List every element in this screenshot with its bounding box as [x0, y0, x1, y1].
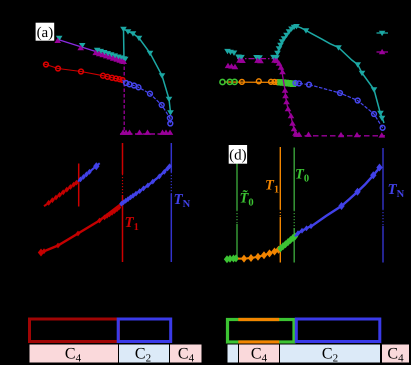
right bar: pink C4 cell — [239, 344, 280, 363]
panel (b): blue circle series — [295, 83, 383, 128]
panel (d): blue segment — [295, 166, 381, 236]
svg-text:(a): (a) — [37, 25, 54, 41]
panel (a): teal curve jump and decay — [124, 29, 171, 113]
panel (a) label box — [36, 23, 55, 41]
panel (b): purple descent curve — [277, 59, 298, 136]
right bar: orange overlay bottom edge — [238, 340, 279, 343]
panel (c): main line red segment — [41, 205, 121, 253]
panel (a): purple dashed vertical drop — [123, 61, 125, 131]
right bar: green outlined rect — [228, 320, 295, 343]
panel (c): red T1 vertical line — [122, 143, 124, 174]
panel (c): main line blue segment — [121, 166, 171, 205]
left bar: pink C4 right cell — [170, 344, 203, 363]
right bar: blue outlined rect — [296, 319, 380, 342]
panel (c): upper line red segment — [44, 182, 78, 207]
panel (a): shallow purple line with paired triangle markers — [58, 40, 124, 61]
panel (b): teal spike curve — [277, 26, 385, 123]
legend: teal entry — [377, 32, 389, 34]
panel (b): paired markers on line — [235, 55, 242, 60]
panel (b): orange circle series with green circles — [224, 81, 280, 83]
panel (b): purple dash-dot horizontal line — [237, 58, 277, 60]
panel (d) label box — [229, 145, 247, 164]
panel (d): blue vertical line — [382, 148, 384, 209]
panel (b): teal left cluster — [224, 49, 231, 54]
panel (d): green vertical line 2 — [293, 148, 295, 211]
legend: purple entry — [377, 51, 389, 53]
panel (a): red circle series — [43, 64, 123, 80]
panel (a): blue circle series — [123, 81, 171, 124]
panel (b): purple dashed baseline — [296, 135, 385, 137]
left bar: pink C4 cell — [29, 344, 119, 363]
right bar: light blue C2 cell — [280, 344, 381, 363]
panel (a): purple dashed baseline with up-triangles — [120, 133, 172, 135]
left bar: dark red outlined rect — [30, 319, 119, 342]
panel (b): purple left cluster — [225, 63, 232, 68]
panel (b): green square cluster — [277, 79, 283, 85]
svg-text:(d): (d) — [229, 147, 247, 163]
left bar: light blue C2 cell — [119, 344, 170, 363]
right bar: orange overlay top edge — [238, 318, 279, 321]
panel (d): orange segment — [238, 249, 280, 258]
panel (c): short red vertical line — [78, 164, 80, 207]
right bar: pink C4 right cell — [382, 344, 410, 363]
panel (d): green start segment — [226, 258, 239, 261]
left bar: blue outlined rect — [118, 319, 171, 342]
panel (d): green vertical line 1 — [236, 163, 238, 210]
right bar: small light blue cell — [227, 344, 239, 363]
panel (d): orange vertical line — [279, 147, 281, 209]
panel (c): upper line blue segment — [78, 163, 100, 181]
panel (c): blue TN vertical line — [170, 143, 172, 172]
panel (d): green middle segment — [280, 236, 296, 249]
